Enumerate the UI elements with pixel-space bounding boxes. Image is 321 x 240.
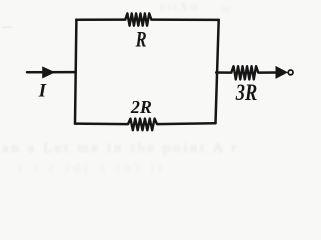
wire: output lead to terminal — [258, 71, 278, 74]
faint bleed-through text (decorative) — [2, 141, 239, 157]
svg-text:R: R — [135, 28, 147, 52]
wire: left branch vertical — [75, 20, 76, 124]
wire: right branch vertical — [216, 20, 219, 123]
resistor R — [125, 13, 151, 25]
wire: input lead — [27, 71, 76, 74]
svg-text:2R: 2R — [130, 97, 152, 117]
wire: top conductor, left of R — [76, 18, 125, 21]
wire: output lead from right branch to 3R — [216, 71, 231, 74]
resistor 2R — [128, 119, 157, 131]
arrow: input current direction — [42, 66, 55, 78]
resistor 3R — [231, 66, 258, 79]
wire: top conductor, right of R — [151, 18, 218, 21]
terminal: open circle — [288, 70, 293, 75]
svg-text:I: I — [38, 80, 47, 101]
arrow: output direction — [276, 66, 289, 79]
wire: bottom conductor, right of 2R — [157, 122, 216, 125]
wire: bottom conductor, left of 2R — [75, 122, 128, 125]
svg-text:3R: 3R — [235, 79, 257, 106]
